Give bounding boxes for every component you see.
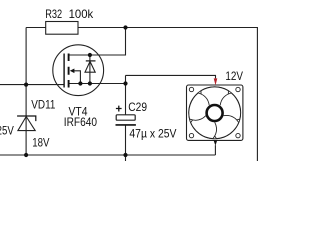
- svg-text:IRF640: IRF640: [64, 115, 97, 129]
- svg-text:100k: 100k: [69, 7, 95, 21]
- svg-text:R32: R32: [45, 7, 62, 21]
- svg-text:12V: 12V: [225, 69, 243, 83]
- svg-text:C29: C29: [128, 100, 147, 114]
- svg-text:18V: 18V: [32, 136, 49, 150]
- svg-text:VD11: VD11: [31, 97, 55, 111]
- svg-text:25V: 25V: [0, 124, 14, 138]
- svg-text:47µ x 25V: 47µ x 25V: [129, 127, 176, 141]
